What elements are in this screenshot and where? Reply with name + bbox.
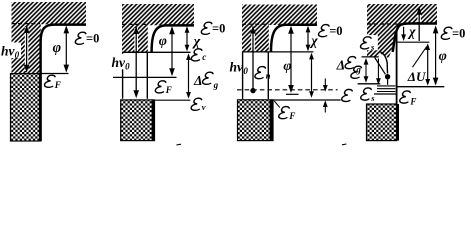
svg-text:s: s — [370, 93, 375, 103]
Ec bulk level line extended right of surface — [397, 41, 430, 43]
E label (left) — [350, 66, 361, 78]
phi label — [159, 34, 167, 49]
svg-text:=0: =0 — [86, 32, 99, 46]
svg-text:φ: φ — [159, 34, 167, 49]
Ev dashed line (valence band top, above EF) — [237, 89, 338, 91]
EF label — [399, 91, 416, 106]
svg-text:φ: φ — [283, 59, 291, 74]
E measure double arrow (left) — [364, 58, 369, 83]
svg-text:=0: =0 — [212, 22, 225, 36]
metal surface wall + potential barrier curve + vacuum level E=0 solid line — [41, 25, 86, 141]
EF Fermi level line — [113, 76, 177, 78]
svg-text:F: F — [54, 80, 61, 90]
electron dot on Ep level — [250, 88, 255, 93]
Es lower label — [360, 88, 375, 103]
hv0 label — [230, 60, 249, 77]
caption tick — [176, 143, 181, 146]
Ev valence band edge line — [155, 99, 191, 101]
checkerboard block (valence band) — [121, 100, 155, 141]
hatched region (conduction band + vacuum continuum) — [122, 4, 194, 52]
svg-text:v: v — [202, 102, 206, 112]
E=0 label — [318, 24, 342, 38]
EF leader stroke — [274, 101, 280, 108]
svg-text:0: 0 — [243, 66, 248, 76]
surface barrier curve + E=0 solid line — [152, 25, 194, 52]
down arrow to surface states — [376, 59, 381, 85]
diagonal relaxation stroke — [375, 58, 386, 75]
svg-text:F: F — [288, 111, 295, 121]
chi label — [192, 34, 201, 49]
checkerboard block (filled valence states up to EF) — [238, 100, 274, 141]
svg-text:g: g — [213, 80, 219, 90]
E=0 dashed inside crystal — [122, 23, 148, 25]
delta Eg label — [193, 72, 219, 90]
Ec conduction band edge line — [122, 51, 191, 53]
Ec line — [242, 51, 313, 53]
surface wall (right edge of crystal) — [396, 30, 398, 141]
svg-text:=0: =0 — [329, 24, 342, 38]
E=0 label — [75, 32, 99, 46]
checkerboard block (valence band bent down) — [367, 104, 400, 141]
svg-text:χ: χ — [192, 34, 201, 49]
surface states lines stack — [374, 86, 396, 94]
phi arrow (double headed) — [433, 25, 439, 85]
E degeneracy measure arrows — [323, 79, 328, 113]
phi label — [53, 40, 61, 56]
Ec label — [191, 49, 206, 62]
Es white box in hatch — [360, 35, 378, 50]
E=0 dashed inside crystal — [242, 23, 269, 25]
surface barrier curve + E=0 solid line — [271, 25, 317, 52]
svg-text:0: 0 — [125, 61, 130, 71]
caption tick — [342, 143, 346, 146]
phi label — [283, 59, 291, 74]
svg-text:χ: χ — [309, 33, 318, 48]
chi arrow (double headed) — [306, 26, 311, 51]
Es upper label — [360, 37, 375, 52]
svg-text:φ: φ — [53, 40, 61, 56]
delta Eg band gap arrow (double headed, Ec to Ev) — [186, 53, 191, 98]
hv0 excitation arrow from Ep dot up to E=0 — [250, 26, 256, 90]
svg-text:hν: hν — [112, 55, 127, 70]
svg-text:0: 0 — [15, 50, 20, 60]
delta U arrow (double headed) — [425, 43, 430, 85]
hatched region — [242, 5, 317, 52]
hatched region with bent bottom edge — [367, 4, 437, 59]
E=0 label — [441, 27, 465, 41]
checkerboard block (electron sea below Fermi level) — [11, 74, 42, 141]
svg-text:Δ: Δ — [193, 73, 202, 88]
hv0 photon arrow (double headed) — [24, 25, 30, 73]
phi label — [439, 49, 447, 64]
svg-text:F: F — [409, 96, 416, 106]
hv0 label — [111, 54, 135, 72]
E=0 dashed inside crystal — [367, 23, 405, 25]
hv0 label — [0, 43, 21, 61]
surface barrier curve + E=0 solid line — [393, 24, 437, 53]
EF label — [278, 107, 295, 121]
delta U leader — [413, 47, 427, 68]
EF line (= top of filled states) — [273, 99, 341, 101]
delta Eg label — [336, 57, 362, 75]
Fermi level line EF — [41, 73, 69, 75]
svg-text:hν: hν — [230, 60, 245, 75]
Ev label — [191, 98, 206, 112]
band gap region side walls — [123, 52, 148, 99]
band gap region side walls — [243, 52, 269, 99]
svg-text:п: п — [266, 71, 271, 81]
svg-text:φ: φ — [439, 49, 447, 64]
Ec surface level line (under Es box) — [362, 56, 379, 58]
bent conduction band edge curve down to dot — [380, 52, 388, 74]
delta Eg arrow (Ec down through Ev dashed) — [309, 53, 314, 98]
electron dot at bent band bottom — [385, 74, 390, 85]
phi arrow (double headed, E=0 down to tick) — [288, 26, 294, 93]
chi electron affinity arrow (double headed, E=0 to Ec) — [185, 26, 190, 51]
E label — [341, 89, 352, 101]
lower left level line — [358, 83, 381, 85]
chi label — [309, 33, 318, 48]
svg-text:χ: χ — [407, 24, 416, 39]
Ep label — [254, 67, 270, 81]
svg-text:ΔU: ΔU — [407, 69, 426, 84]
phi arrow (double headed, E=0 to EF) — [169, 26, 175, 76]
hatched region (filled/allowed states of metal, inverted-L) — [12, 2, 87, 73]
escaping electron arrow through roof — [416, 7, 422, 41]
svg-text:Δ: Δ — [336, 57, 345, 72]
svg-text:hν: hν — [1, 44, 16, 59]
svg-text:=0: =0 — [452, 27, 465, 41]
chi label — [407, 24, 416, 39]
EF label — [44, 75, 61, 90]
tick line under phi arrow — [286, 93, 299, 95]
E=0 label — [201, 22, 225, 36]
delta U label — [407, 69, 426, 84]
EF line — [397, 86, 444, 88]
svg-text:s: s — [370, 42, 375, 52]
svg-text:c: c — [202, 52, 206, 62]
phi work-function arrow (double headed) — [64, 25, 70, 72]
chi arrow (down from E=0 to Ec line) — [401, 27, 406, 41]
vacuum level E=0 dashed inside metal — [12, 23, 41, 25]
svg-text:F: F — [165, 85, 172, 95]
EF label — [155, 81, 172, 95]
hv0 photon arrow (double headed, E=0 to Ev) — [133, 26, 139, 98]
